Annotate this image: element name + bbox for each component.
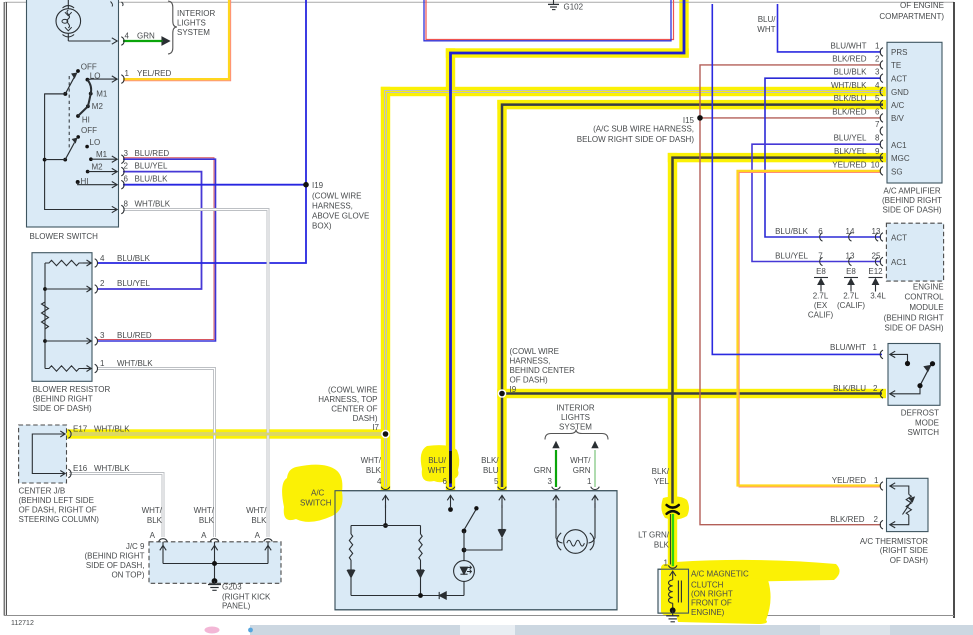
top edge stub arcs blower switch <box>111 2 113 7</box>
svg-text:112712: 112712 <box>11 620 34 627</box>
svg-text:HARNESS,: HARNESS, <box>312 202 353 211</box>
svg-text:YEL/RED: YEL/RED <box>832 476 866 485</box>
A/C switch pin cups <box>381 487 390 490</box>
svg-text:SYSTEM: SYSTEM <box>559 423 592 432</box>
svg-text:8: 8 <box>124 200 129 209</box>
wire WHT/BLK E17 to I7 <box>69 433 386 436</box>
svg-text:INTERIOR: INTERIOR <box>177 9 215 18</box>
highlight band BLK/BLU horizontal y393 <box>497 389 886 398</box>
svg-text:A: A <box>201 531 207 540</box>
ground G203 <box>208 578 221 590</box>
svg-text:OF DASH): OF DASH) <box>510 376 549 385</box>
svg-text:BLU/YEL: BLU/YEL <box>775 252 808 261</box>
svg-text:YEL: YEL <box>654 477 670 486</box>
highlight band BLK/YEL + LT GRN vertical x672 <box>668 153 677 567</box>
svg-text:OF ENGINE: OF ENGINE <box>900 1 944 10</box>
svg-text:4: 4 <box>875 81 880 90</box>
svg-text:CALIF): CALIF) <box>808 311 834 320</box>
highlight blob BLU/WHT label <box>421 445 460 482</box>
svg-text:BLK: BLK <box>147 516 163 525</box>
wire BLK/RED amp pin6 B/V to I15 <box>700 117 881 119</box>
svg-text:TE: TE <box>891 61 901 70</box>
svg-text:E12: E12 <box>868 267 883 276</box>
svg-text:3: 3 <box>100 331 105 340</box>
E8 branch arrow 2.7L EX CALIF <box>814 278 828 292</box>
wire blue loop G102 box <box>424 0 671 41</box>
junction I19 <box>303 182 309 188</box>
svg-text:SIDE OF DASH,: SIDE OF DASH, <box>86 561 145 570</box>
svg-text:7: 7 <box>875 120 880 129</box>
svg-text:INTERIOR: INTERIOR <box>556 404 594 413</box>
svg-text:E8: E8 <box>816 267 826 276</box>
highlight band BLK/YEL horizontal y157 <box>668 153 886 162</box>
svg-text:WHT/: WHT/ <box>361 456 382 465</box>
wire BLU/BLK vertical x306 top to resistor pin4 <box>97 0 306 263</box>
svg-text:A/C THERMISTOR: A/C THERMISTOR <box>860 537 928 546</box>
clutch pin cup <box>668 565 677 568</box>
highlight blob clutch text block <box>674 576 770 624</box>
center J/B internal link E17-E16 <box>32 434 65 474</box>
svg-text:HARNESS,: HARNESS, <box>510 357 551 366</box>
highlight band BLU/WHT vertical x450 <box>446 48 455 491</box>
svg-text:WHT/BLK: WHT/BLK <box>135 200 171 209</box>
A/C switch diode to pin5 <box>464 505 506 550</box>
svg-text:CLUTCH: CLUTCH <box>691 581 724 590</box>
svg-text:OFF: OFF <box>81 62 97 71</box>
svg-text:2: 2 <box>875 55 880 64</box>
highlight band WHT/BLK horizontal y91 <box>381 87 886 96</box>
svg-text:LO: LO <box>90 138 101 147</box>
re-stroke A/C switch box border <box>335 491 617 610</box>
svg-text:5: 5 <box>494 477 499 486</box>
svg-text:ABOVE GLOVE: ABOVE GLOVE <box>312 212 369 221</box>
ECM inline connector arcs on ACT wire <box>820 233 823 241</box>
svg-text:MGC: MGC <box>891 154 910 163</box>
svg-text:3: 3 <box>548 477 553 486</box>
svg-text:A/C: A/C <box>891 101 905 110</box>
wire GRN blower pin4 <box>123 40 162 42</box>
svg-text:DASH): DASH) <box>353 414 378 423</box>
svg-text:A: A <box>150 531 156 540</box>
svg-text:AC1: AC1 <box>891 258 907 267</box>
svg-text:WHT/: WHT/ <box>570 456 591 465</box>
svg-text:4: 4 <box>125 32 130 41</box>
svg-text:GRN: GRN <box>137 32 155 41</box>
ground G102 <box>548 0 559 10</box>
blower resistor box <box>32 253 92 382</box>
highlight blob clutch box right <box>661 564 691 615</box>
svg-text:(ON RIGHT: (ON RIGHT <box>691 590 733 599</box>
svg-text:YEL/RED: YEL/RED <box>137 69 171 78</box>
svg-text:3.4L: 3.4L <box>870 292 886 301</box>
svg-text:HI: HI <box>82 116 90 125</box>
highlight band BLU/WHT vertical x684 <box>679 0 688 58</box>
svg-text:AC1: AC1 <box>891 141 907 150</box>
svg-text:SWITCH: SWITCH <box>300 499 332 508</box>
A/C switch LED <box>454 548 475 596</box>
svg-text:LO: LO <box>90 72 101 81</box>
svg-text:(BEHIND RIGHT: (BEHIND RIGHT <box>33 395 93 404</box>
svg-text:BLU/: BLU/ <box>428 456 447 465</box>
A/C switch push switch <box>448 506 478 550</box>
svg-text:PRS: PRS <box>891 48 907 57</box>
svg-text:OF DASH): OF DASH) <box>890 556 929 565</box>
svg-text:M2: M2 <box>92 163 104 172</box>
svg-text:1: 1 <box>125 69 130 78</box>
wire BLK/RED amp pin2 TE down to thermistor pin2 <box>700 65 881 525</box>
svg-text:J/C 9: J/C 9 <box>126 542 145 551</box>
svg-text:I19: I19 <box>312 181 324 190</box>
svg-text:BLU/YEL: BLU/YEL <box>834 134 867 143</box>
svg-text:13: 13 <box>872 227 881 236</box>
svg-text:ON TOP): ON TOP) <box>111 571 144 580</box>
J/C9 internal bus <box>160 542 271 581</box>
svg-text:BLU/BLK: BLU/BLK <box>135 175 169 184</box>
svg-text:BLU/: BLU/ <box>758 15 777 24</box>
svg-text:DEFROST: DEFROST <box>901 409 939 418</box>
svg-text:BLK/RED: BLK/RED <box>832 107 866 116</box>
A/C thermistor box <box>887 478 929 531</box>
J/C 9 box <box>149 542 281 584</box>
wire YEL/RED blower pin1 <box>123 0 231 81</box>
A/C amplifier box <box>887 42 942 183</box>
svg-text:SG: SG <box>891 167 903 176</box>
svg-text:A/C MAGNETIC: A/C MAGNETIC <box>691 570 749 579</box>
footer bar <box>205 625 973 635</box>
svg-text:WHT: WHT <box>428 466 446 475</box>
wire YEL/RED amp pin10 SG to thermistor pin1 <box>739 173 881 487</box>
E12 branch arrow 3.4L <box>869 278 883 292</box>
wire BLU/YEL amp pin8 AC1 to ECM AC1 <box>752 144 881 261</box>
junction I15 <box>697 115 703 121</box>
blower switch S1 upper wafer <box>63 69 117 118</box>
svg-text:YEL/RED: YEL/RED <box>832 160 866 169</box>
A/C switch resistor network <box>347 505 464 599</box>
svg-text:A: A <box>255 531 261 540</box>
svg-text:BLK: BLK <box>199 516 215 525</box>
svg-text:6: 6 <box>124 175 129 184</box>
svg-text:7: 7 <box>818 252 823 261</box>
svg-text:BLU: BLU <box>483 466 499 475</box>
svg-text:10: 10 <box>871 160 880 169</box>
wire WHT/BLK I7 up and right to amp GND pin4 <box>386 92 884 435</box>
svg-text:E16: E16 <box>73 464 88 473</box>
highlight blob clutch connector <box>661 496 689 519</box>
svg-text:5: 5 <box>875 94 880 103</box>
svg-text:BEHIND CENTER: BEHIND CENTER <box>510 366 576 375</box>
svg-text:OF DASH, RIGHT OF: OF DASH, RIGHT OF <box>19 506 97 515</box>
svg-text:BLK: BLK <box>251 516 267 525</box>
svg-text:(BEHIND RIGHT: (BEHIND RIGHT <box>85 552 145 561</box>
svg-text:BLU/WHT: BLU/WHT <box>830 343 866 352</box>
highlight band BLK/BLU horizontal y104 <box>497 100 886 109</box>
svg-text:3: 3 <box>875 68 880 77</box>
svg-text:2: 2 <box>874 515 879 524</box>
svg-text:BLK/: BLK/ <box>481 456 499 465</box>
svg-text:(BEHIND RIGHT: (BEHIND RIGHT <box>882 196 942 205</box>
svg-text:BLK/BLU: BLK/BLU <box>834 94 867 103</box>
svg-text:B/V: B/V <box>891 114 905 123</box>
A/C switch internal pin arrows <box>382 495 388 500</box>
svg-text:BLOWER RESISTOR: BLOWER RESISTOR <box>33 385 111 394</box>
center J/B pin arcs <box>68 430 71 439</box>
svg-text:BLU/YEL: BLU/YEL <box>135 162 168 171</box>
interior lights brace above A/C switch <box>545 430 608 440</box>
svg-text:PANEL): PANEL) <box>222 602 251 611</box>
svg-text:BLK/RED: BLK/RED <box>832 55 866 64</box>
wire BLK/BLU I9 to defrost pin2 <box>502 392 882 395</box>
svg-text:ACT: ACT <box>891 233 907 242</box>
svg-text:SIDE OF DASH): SIDE OF DASH) <box>882 206 941 215</box>
blower switch box <box>27 0 119 227</box>
svg-text:A/C AMPLIFIER: A/C AMPLIFIER <box>883 187 941 196</box>
J/C9 pin caps <box>159 539 168 542</box>
wire WHT/BLK blower pin8 to J/C9 <box>123 210 268 538</box>
svg-text:3: 3 <box>124 149 129 158</box>
svg-text:ACT: ACT <box>891 75 907 84</box>
svg-text:HI: HI <box>81 177 89 186</box>
blower switch common rail to pin8 <box>45 94 117 210</box>
wire BLU/WHT from top to defrost pin1 <box>712 4 882 354</box>
svg-text:13: 13 <box>846 252 855 261</box>
svg-text:WHT/BLK: WHT/BLK <box>831 81 867 90</box>
svg-text:WHT/: WHT/ <box>142 506 163 515</box>
re-stroke clutch box border <box>658 569 689 613</box>
svg-text:BLU/YEL: BLU/YEL <box>117 279 150 288</box>
svg-text:2.7L: 2.7L <box>813 292 829 301</box>
svg-text:(BEHIND LEFT SIDE: (BEHIND LEFT SIDE <box>19 496 94 505</box>
thermistor internals <box>890 483 915 528</box>
svg-text:(COWL WIRE: (COWL WIRE <box>312 192 361 201</box>
svg-text:WHT/: WHT/ <box>194 506 215 515</box>
svg-text:(A/C SUB WIRE HARNESS,: (A/C SUB WIRE HARNESS, <box>593 125 694 134</box>
svg-text:BLK/: BLK/ <box>652 467 670 476</box>
svg-text:9: 9 <box>875 147 880 156</box>
svg-text:GRN: GRN <box>573 466 591 475</box>
highlight band WHT/BLK vertical x385 <box>381 87 390 491</box>
svg-text:1: 1 <box>875 42 880 51</box>
wire WHT/BLK I7 down to A/C switch pin4 <box>384 434 387 487</box>
svg-text:GRN: GRN <box>534 466 552 475</box>
ECM pin arcs <box>880 233 883 242</box>
svg-text:(CALIF): (CALIF) <box>837 301 865 310</box>
highlight band BLU/WHT horizontal y53 <box>446 48 689 57</box>
svg-text:BLK/YEL: BLK/YEL <box>834 147 867 156</box>
svg-text:(COWL WIRE: (COWL WIRE <box>328 386 377 395</box>
blower switch S1 lower wafer <box>63 135 117 188</box>
svg-text:2: 2 <box>124 162 129 171</box>
svg-text:1: 1 <box>587 477 592 486</box>
svg-text:SIDE OF DASH): SIDE OF DASH) <box>33 404 92 413</box>
svg-text:WHT/BLK: WHT/BLK <box>94 425 130 434</box>
wire WHT/GRN A/C switch pin1 to interior lights <box>594 450 596 487</box>
svg-text:M1: M1 <box>96 150 108 159</box>
wire LT GRN/BLK connector to clutch pin1 <box>669 514 671 565</box>
svg-text:2: 2 <box>100 279 105 288</box>
wire red loop G102 box <box>426 0 674 40</box>
svg-text:E8: E8 <box>846 267 856 276</box>
svg-text:G102: G102 <box>564 3 584 12</box>
center J/B box <box>19 425 67 483</box>
svg-text:BLOWER SWITCH: BLOWER SWITCH <box>30 232 99 241</box>
svg-text:1: 1 <box>100 359 105 368</box>
wire BLK/YEL amp pin9 MGC down to connector <box>673 158 884 504</box>
svg-text:OFF: OFF <box>81 126 97 135</box>
svg-text:WHT: WHT <box>757 25 775 34</box>
highlight band WHT/BLK E17 horizontal <box>65 429 390 438</box>
mechanical link dashed <box>68 76 70 150</box>
svg-text:BLK: BLK <box>366 466 382 475</box>
svg-text:BLU/RED: BLU/RED <box>117 331 152 340</box>
svg-text:BOX): BOX) <box>312 222 332 231</box>
svg-text:BLK: BLK <box>654 541 670 550</box>
wire WHT/BLK resistor pin1 to J/C9 <box>97 369 215 538</box>
wire BLU/BLK blower pin6 to I19 <box>123 184 306 186</box>
defrost mode switch box <box>888 344 940 406</box>
svg-text:M1: M1 <box>96 89 108 98</box>
svg-text:I7: I7 <box>372 423 379 432</box>
svg-text:ENGINE): ENGINE) <box>691 608 725 617</box>
wire BLK/BLU amp pin5 to I9 to A/C switch pin5 <box>502 105 883 487</box>
svg-text:BLU/RED: BLU/RED <box>135 149 170 158</box>
interior lights brace top-left <box>168 1 177 54</box>
svg-text:G203: G203 <box>222 583 242 592</box>
blower switch pin arcs <box>121 37 124 46</box>
svg-text:BLK/BLU: BLK/BLU <box>833 384 866 393</box>
page border left double <box>3 2 5 616</box>
svg-text:6: 6 <box>875 107 880 116</box>
svg-text:(COWL WIRE: (COWL WIRE <box>510 347 559 356</box>
svg-text:4: 4 <box>100 254 105 263</box>
E8 branch arrow 2.7L CALIF <box>844 278 858 292</box>
defrost pin arcs <box>880 350 883 359</box>
svg-text:BLK/RED: BLK/RED <box>830 515 864 524</box>
junction I9 <box>498 389 507 398</box>
highlight blob clutch text line1 <box>676 560 840 583</box>
svg-text:BELOW RIGHT SIDE OF DASH): BELOW RIGHT SIDE OF DASH) <box>577 135 695 144</box>
svg-text:LT GRN/: LT GRN/ <box>638 531 670 540</box>
wire BLU/BLK amp pin3 ACT to ECM ACT <box>765 78 881 237</box>
svg-text:ENGINE: ENGINE <box>913 283 944 292</box>
wire WHT/BLK E16 to J/C9 <box>69 474 163 538</box>
A/C switch box <box>335 491 617 610</box>
svg-text:SYSTEM: SYSTEM <box>177 28 210 37</box>
svg-text:I9: I9 <box>510 385 517 394</box>
blower resistor pin arcs <box>95 259 98 268</box>
svg-text:(RIGHT KICK: (RIGHT KICK <box>222 593 271 602</box>
svg-text:MODULE: MODULE <box>909 303 943 312</box>
svg-text:BLU/BLK: BLU/BLK <box>117 254 151 263</box>
svg-text:8: 8 <box>875 134 880 143</box>
inline connector BLK/YEL to LT GRN/BLK <box>667 505 679 514</box>
svg-text:HARNESS, TOP: HARNESS, TOP <box>318 395 377 404</box>
wire BLU/WHT A/C switch pin6 up over to top <box>451 0 685 487</box>
arrows GRN/WHT-GRN to interior lights <box>552 441 559 448</box>
thermistor pin arcs <box>880 482 883 491</box>
svg-text:E17: E17 <box>73 425 88 434</box>
svg-text:M2: M2 <box>92 102 104 111</box>
svg-text:(RIGHT SIDE: (RIGHT SIDE <box>880 546 928 555</box>
svg-text:WHT/: WHT/ <box>246 506 267 515</box>
svg-text:BLU/BLK: BLU/BLK <box>775 227 809 236</box>
clutch coil internals <box>666 571 681 622</box>
svg-text:LIGHTS: LIGHTS <box>177 19 206 28</box>
svg-text:WHT/BLK: WHT/BLK <box>94 464 130 473</box>
A/C switch lamp <box>556 503 595 553</box>
svg-text:(BEHIND RIGHT: (BEHIND RIGHT <box>884 313 944 322</box>
svg-text:14: 14 <box>846 227 855 236</box>
A/C magnetic clutch box <box>658 569 689 613</box>
svg-text:4: 4 <box>377 477 382 486</box>
svg-text:LIGHTS: LIGHTS <box>561 413 590 422</box>
svg-text:6: 6 <box>443 477 448 486</box>
svg-text:WHT/BLK: WHT/BLK <box>117 359 153 368</box>
page border top <box>5 1 954 3</box>
svg-text:CONTROL: CONTROL <box>904 293 944 302</box>
page border bottom <box>4 615 954 617</box>
svg-text:CENTER OF: CENTER OF <box>331 405 377 414</box>
svg-text:CENTER J/B: CENTER J/B <box>19 487 66 496</box>
svg-text:STEERING COLUMN): STEERING COLUMN) <box>19 515 100 524</box>
svg-text:FRONT OF: FRONT OF <box>691 599 732 608</box>
amp pin arcs 1-10 <box>880 48 883 57</box>
svg-text:(EX: (EX <box>814 301 828 310</box>
svg-text:1: 1 <box>874 476 879 485</box>
arrow GRN into interior lights <box>162 37 170 45</box>
wire BLU/WHT from top to amp pin1 PRS <box>778 4 882 52</box>
junction I7 <box>381 430 390 439</box>
svg-text:COMPARTMENT): COMPARTMENT) <box>879 12 944 21</box>
svg-text:2: 2 <box>873 384 878 393</box>
svg-text:GND: GND <box>891 88 909 97</box>
svg-text:1: 1 <box>873 343 878 352</box>
page border right <box>953 2 955 618</box>
wire BLU/RED blower pin3 to resistor pin3 <box>97 158 214 340</box>
wire GRN A/C switch pin3 to interior lights <box>555 450 557 487</box>
svg-text:25: 25 <box>872 252 881 261</box>
svg-text:BLU/WHT: BLU/WHT <box>831 42 867 51</box>
defrost switch internals <box>890 351 935 397</box>
svg-text:SWITCH: SWITCH <box>907 428 939 437</box>
highlight blob A/C SWITCH label <box>282 465 342 522</box>
svg-text:A/C: A/C <box>311 489 325 498</box>
wire BLU/YEL blower pin2 to resistor pin2 <box>97 172 202 289</box>
lamp (blower switch illumination) <box>56 0 117 44</box>
svg-text:MODE: MODE <box>915 419 939 428</box>
highlight band BLK/BLU vertical x502 <box>497 100 506 491</box>
svg-text:2.7L: 2.7L <box>843 292 859 301</box>
ECM inline connector arcs on AC1 wire <box>820 257 823 265</box>
svg-text:BLU/BLK: BLU/BLK <box>834 68 868 77</box>
svg-text:1: 1 <box>664 559 669 568</box>
engine control module box <box>886 223 943 281</box>
svg-text:SIDE OF DASH): SIDE OF DASH) <box>884 324 943 333</box>
blower resistor internals <box>42 260 92 372</box>
svg-text:6: 6 <box>818 227 823 236</box>
